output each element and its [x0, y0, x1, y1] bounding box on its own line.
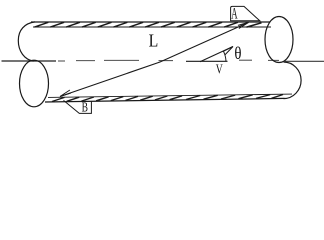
- velocity direction arrow: [200, 47, 233, 62]
- arrowhead at A end: [238, 22, 249, 28]
- svg-text:B: B: [82, 101, 89, 115]
- arrowhead on direction arrow: [223, 47, 233, 56]
- bottom cylinder left ellipse: [20, 60, 49, 107]
- svg-text:θ: θ: [234, 44, 241, 63]
- top cylinder band slashes: [35, 22, 262, 27]
- top cylinder band inner line: [33, 26, 271, 28]
- bottom cylinder band inner line: [48, 94, 292, 97]
- angle arc: [224, 51, 227, 61]
- svg-text:L: L: [149, 31, 159, 51]
- svg-text:V: V: [216, 62, 223, 77]
- top cylinder right ellipse: [265, 17, 293, 63]
- center line right solid: [285, 60, 324, 62]
- svg-text:A: A: [231, 5, 238, 22]
- bottom cylinder band slashes: [52, 95, 283, 102]
- angle construction: horizontal segment (on center line): [186, 60, 228, 62]
- top cylinder top edge: [31, 21, 270, 23]
- flag B: [64, 100, 92, 113]
- bottom cylinder bottom edge: [45, 98, 285, 102]
- arrowhead at B end: [60, 90, 71, 97]
- top cylinder left cap: [18, 22, 35, 61]
- center line left solid: [2, 60, 57, 62]
- center line dashes: [58, 59, 279, 62]
- flag A: [231, 6, 260, 20]
- line L (B to A, kinked at nip): [60, 22, 249, 96]
- bottom cylinder right cap: [284, 62, 302, 99]
